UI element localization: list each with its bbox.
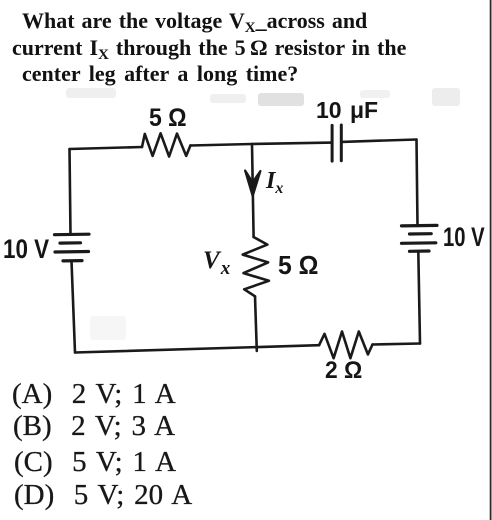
ghost smudge band (66, 88, 116, 98)
label Vx (R2 voltage) (203, 248, 230, 278)
wire right side upper (corner down to battery B2) (417, 140, 418, 226)
resistor R3 2 ohm (bottom) (319, 332, 372, 359)
node A (top of center leg) (251, 143, 254, 146)
label 5 ohm (R2) (278, 252, 318, 278)
wire left side lower (battery B1 to bottom corner) (72, 261, 76, 353)
wire center leg lower (R2 to bottom wire) (255, 296, 257, 351)
wire top-right (node A to capacitor C1) (252, 143, 332, 144)
title line 1 (22, 10, 367, 36)
label 10 V (right, B2) (443, 224, 485, 251)
option A (12, 380, 176, 409)
label 10 uF (C1) (316, 99, 378, 122)
wire right side lower (battery B2 to bottom corner) (418, 251, 420, 343)
battery B1 10 V (left) (55, 234, 90, 261)
capacitor C1 10 uF (332, 125, 341, 161)
label 5 ohm (R1) (149, 106, 187, 131)
wire capacitor to top-right corner (341, 140, 416, 142)
option B (13, 412, 175, 441)
current arrow Ix (down) (245, 171, 260, 197)
option C (14, 448, 176, 477)
battery B2 10 V (right) (402, 225, 438, 251)
wire bottom-right (corner to resistor R3) (373, 344, 421, 345)
page edge line (right margin of scan) (490, 0, 492, 520)
label 2 ohm (R3) (325, 359, 362, 383)
wire top-left (corner to resistor R1) (70, 147, 143, 149)
wire top-middle (R1 to node A) (190, 144, 252, 146)
label Ix (current) (266, 169, 283, 197)
wire bottom-left (R3 to bottom-left corner) (75, 345, 319, 352)
option D (14, 481, 192, 510)
wire center leg upper (node A down to resistor R2) (252, 144, 254, 237)
title line 2 (12, 37, 406, 63)
title line 3 (22, 63, 298, 85)
resistor R1 5 ohm (top) (142, 133, 190, 156)
wire left side upper (top corner down to battery B1) (70, 149, 71, 235)
label 10 V (left, B1) (3, 236, 49, 263)
resistor R2 5 ohm (center, Vx) (243, 237, 269, 296)
